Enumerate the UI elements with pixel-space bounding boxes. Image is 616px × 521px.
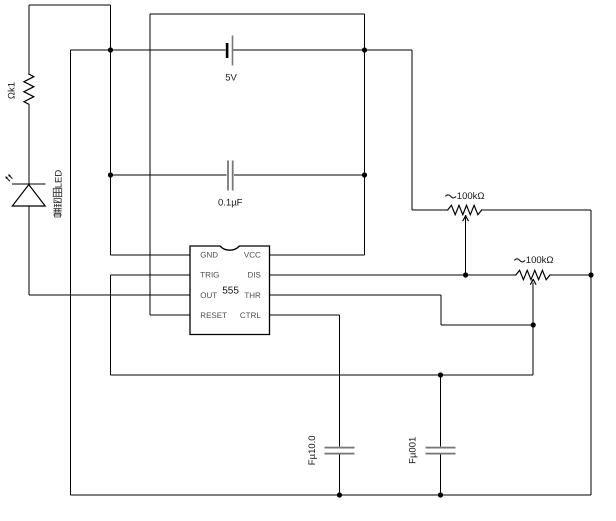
svg-text:TRIG: TRIG [200, 271, 219, 280]
svg-text:RESET: RESET [200, 311, 227, 320]
svg-text:Fµ001: Fµ001 [408, 437, 419, 464]
svg-text:0.1µF: 0.1µF [218, 197, 243, 208]
svg-text:VCC: VCC [244, 251, 261, 260]
svg-text:100kΩ: 100kΩ [457, 191, 485, 202]
svg-text:100kΩ: 100kΩ [526, 255, 554, 266]
svg-text:THR: THR [244, 291, 261, 300]
svg-text:DIS: DIS [247, 271, 260, 280]
svg-text:GND: GND [200, 251, 218, 260]
svg-text:Fµ10.0: Fµ10.0 [307, 435, 318, 465]
svg-text:5V: 5V [225, 72, 237, 83]
svg-text:CTRL: CTRL [240, 311, 261, 320]
svg-text:OUT: OUT [200, 291, 217, 300]
svg-text:LED: LED [53, 170, 64, 189]
svg-text:555: 555 [222, 285, 239, 296]
svg-text:Ωk1: Ωk1 [6, 82, 17, 99]
